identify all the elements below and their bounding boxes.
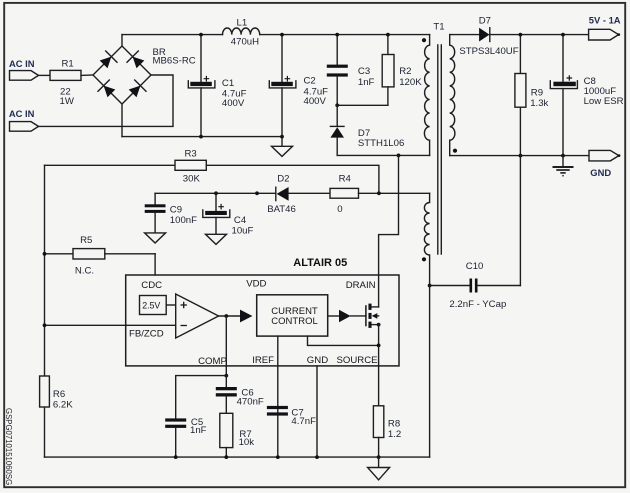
node C1 top <box>199 33 203 37</box>
wire top bus (DC+) <box>122 34 223 36</box>
svg-text:400V: 400V <box>222 98 245 109</box>
node R8 rail <box>377 455 381 459</box>
svg-text:400V: 400V <box>304 96 327 107</box>
svg-text:C3: C3 <box>358 66 370 77</box>
node IREF rail <box>276 455 280 459</box>
transformer T1 secondary winding <box>450 35 455 156</box>
wire op-amp output <box>219 315 241 317</box>
svg-text:30K: 30K <box>183 174 201 185</box>
wire R4 node to aux winding <box>379 192 430 194</box>
svg-text:STPS3L40UF: STPS3L40UF <box>459 46 518 57</box>
transformer secondary phase dot <box>453 149 457 153</box>
capacitor C8 <box>550 35 623 156</box>
svg-text:1nF: 1nF <box>190 425 207 436</box>
svg-text:ALTAIR 05: ALTAIR 05 <box>293 257 347 269</box>
capacitor C2 <box>269 35 328 137</box>
svg-text:IREF: IREF <box>252 355 274 366</box>
svg-text:D7: D7 <box>358 128 370 139</box>
resistor R8 <box>373 406 401 457</box>
wire GND pin drop <box>316 366 318 457</box>
node source stub <box>377 323 381 327</box>
bridge diode top-right <box>127 51 144 68</box>
svg-text:STTH1L06: STTH1L06 <box>358 138 404 149</box>
svg-text:FB/ZCD: FB/ZCD <box>129 329 164 340</box>
connector 5V - 1A <box>589 15 621 40</box>
svg-text:C10: C10 <box>466 261 484 272</box>
node C4 top <box>214 191 218 195</box>
svg-text:BAT46: BAT46 <box>267 204 296 215</box>
svg-text:R3: R3 <box>185 148 197 159</box>
arrow to current control <box>240 310 252 323</box>
bridge diode bottom-left <box>98 80 115 97</box>
ground C4 <box>206 234 227 244</box>
svg-text:AC IN: AC IN <box>9 108 35 119</box>
svg-text:6.2K: 6.2K <box>53 399 73 410</box>
svg-text:5V - 1A: 5V - 1A <box>589 15 621 26</box>
svg-text:GSPG0710151060SG: GSPG0710151060SG <box>4 408 13 485</box>
capacitor C10 <box>430 261 521 310</box>
arrow to gate <box>328 310 351 323</box>
node R7 rail <box>224 455 228 459</box>
resistor R2 <box>382 35 422 106</box>
transistor Q1 MOSFET <box>351 304 379 328</box>
svg-text:120K: 120K <box>399 77 422 88</box>
wire bottom rail <box>45 456 430 458</box>
svg-text:DRAIN: DRAIN <box>346 280 376 291</box>
svg-text:C4: C4 <box>234 215 247 226</box>
diode D2 <box>267 174 330 215</box>
node C1 bottom <box>199 135 203 139</box>
ground (input section) <box>272 137 293 157</box>
wire secondary top to D7 <box>450 34 479 36</box>
svg-text:R8: R8 <box>388 419 400 430</box>
svg-text:R6: R6 <box>53 389 65 400</box>
wire C10 to secondary return <box>519 156 521 286</box>
node C5 rail <box>174 455 178 459</box>
wire left rail <box>44 165 46 376</box>
node R4 right <box>377 191 381 195</box>
svg-text:1nF: 1nF <box>358 77 375 88</box>
reference 2.5V box <box>140 296 176 315</box>
svg-text:R9: R9 <box>531 87 543 98</box>
connector AC IN (top) <box>9 58 39 80</box>
wire COMP to C5 <box>176 376 227 419</box>
node drain tap <box>397 154 401 158</box>
svg-text:D2: D2 <box>277 174 289 185</box>
svg-text:C2: C2 <box>304 76 316 87</box>
wire bridge bottom to bottom bus <box>121 104 123 137</box>
svg-text:VDD: VDD <box>246 278 266 289</box>
node aux/C10 <box>428 284 432 288</box>
node C2 top <box>280 33 284 37</box>
node source/cc <box>377 344 381 348</box>
svg-text:R1: R1 <box>62 58 74 69</box>
node op-amp out <box>224 314 228 318</box>
capacitor C5 <box>165 417 206 457</box>
node C8 bottom <box>561 154 565 158</box>
wire R1 to bridge left <box>81 74 93 76</box>
earth ground (secondary) <box>553 156 574 176</box>
diode D7 output rectifier <box>459 15 518 57</box>
capacitor C9 <box>145 193 197 233</box>
wire FB/ZCD <box>45 324 176 326</box>
node GND rail <box>315 455 319 459</box>
wire source down <box>378 325 380 406</box>
current control block <box>257 295 328 336</box>
svg-text:1W: 1W <box>60 96 75 107</box>
diode D7 clamp <box>330 105 404 155</box>
node VDD <box>255 191 259 195</box>
svg-text:CONTROL: CONTROL <box>271 316 317 327</box>
svg-text:4.7nF: 4.7nF <box>291 416 316 427</box>
resistor R6 <box>40 376 74 410</box>
resistor R5 <box>45 235 156 277</box>
svg-text:N.C.: N.C. <box>75 266 94 277</box>
bridge diode top-left <box>100 51 117 68</box>
svg-text:MB6S-RC: MB6S-RC <box>153 56 196 67</box>
transformer core <box>438 45 442 254</box>
svg-text:470nF: 470nF <box>237 397 264 408</box>
transformer T1 aux winding <box>424 193 429 457</box>
node C2 bottom <box>280 135 284 139</box>
transformer aux phase dot <box>422 257 426 261</box>
wire bottom bus (DC-) <box>122 136 282 138</box>
node C8 top <box>561 33 565 37</box>
node C3 top <box>335 33 339 37</box>
svg-text:R4: R4 <box>339 174 352 185</box>
svg-text:GND: GND <box>590 167 611 178</box>
resistor R9 <box>515 35 549 156</box>
resistor R3 <box>45 148 207 184</box>
wire CDC pin drop <box>154 254 156 275</box>
node FB rail <box>43 323 47 327</box>
svg-text:1.2: 1.2 <box>388 429 401 440</box>
svg-text:COMP: COMP <box>198 356 227 367</box>
wire COMP drop <box>225 316 227 376</box>
node clamp <box>335 103 339 107</box>
wire AC IN bottom to bridge right <box>39 75 174 126</box>
svg-text:470uH: 470uH <box>231 37 259 48</box>
bridge diode bottom-right <box>129 80 146 97</box>
inductor L1 <box>223 18 260 48</box>
connector GND <box>589 150 620 178</box>
node R5 rail <box>43 252 47 256</box>
svg-text:Low ESR: Low ESR <box>584 96 624 107</box>
capacitor C6 <box>216 376 264 414</box>
svg-text:R2: R2 <box>399 66 411 77</box>
wire bridge top to top bus <box>121 35 123 46</box>
node COMP <box>224 374 228 378</box>
svg-text:CDC: CDC <box>141 280 162 291</box>
svg-text:10uF: 10uF <box>232 225 254 236</box>
resistor R7 <box>220 413 254 457</box>
svg-text:C9: C9 <box>170 204 182 215</box>
transformer T1 primary winding <box>424 35 429 156</box>
svg-text:R5: R5 <box>80 235 92 246</box>
wire IREF drop <box>277 336 279 457</box>
svg-text:100nF: 100nF <box>170 215 197 226</box>
svg-text:D7: D7 <box>479 15 491 26</box>
svg-text:AC IN: AC IN <box>9 58 35 69</box>
svg-text:L1: L1 <box>237 18 248 29</box>
capacitor C4 <box>203 193 254 236</box>
node R9 bottom <box>519 154 523 158</box>
node R2 top <box>386 33 390 37</box>
resistor R4 <box>330 174 379 215</box>
svg-text:SOURCE: SOURCE <box>337 355 378 366</box>
svg-text:10k: 10k <box>239 437 255 448</box>
ground (main primary) <box>368 457 390 480</box>
svg-text:T1: T1 <box>433 21 444 32</box>
wire VDD row <box>155 192 275 194</box>
op-amp error amplifier <box>176 294 219 338</box>
capacitor C3 <box>327 35 375 106</box>
svg-text:GND: GND <box>307 355 328 366</box>
capacitor C1 <box>188 35 246 137</box>
svg-text:1.3k: 1.3k <box>530 98 548 109</box>
svg-text:2.2nF - YCap: 2.2nF - YCap <box>449 299 506 310</box>
svg-text:0: 0 <box>337 204 342 215</box>
wire output return <box>450 155 589 157</box>
wire current control to source <box>308 336 379 345</box>
connector AC IN (bottom) <box>9 108 39 131</box>
op-amp U1 box (IC outline) <box>126 275 399 366</box>
ground C9 <box>145 233 166 243</box>
wire AC IN top to R1 <box>39 74 51 76</box>
wire primary bottom <box>337 154 429 156</box>
resistor R1 <box>50 58 81 107</box>
wire R3 right to R4 node <box>206 165 379 193</box>
transformer primary phase dot <box>422 38 426 42</box>
wire output 5V <box>490 34 589 36</box>
node R9 top <box>519 33 523 37</box>
wire C3/R2 bottoms <box>337 104 388 106</box>
svg-text:2.5V: 2.5V <box>142 301 160 311</box>
bridge rectifier BR diamond <box>93 46 196 104</box>
capacitor C7 <box>267 406 316 427</box>
wire drain drop <box>379 155 399 307</box>
